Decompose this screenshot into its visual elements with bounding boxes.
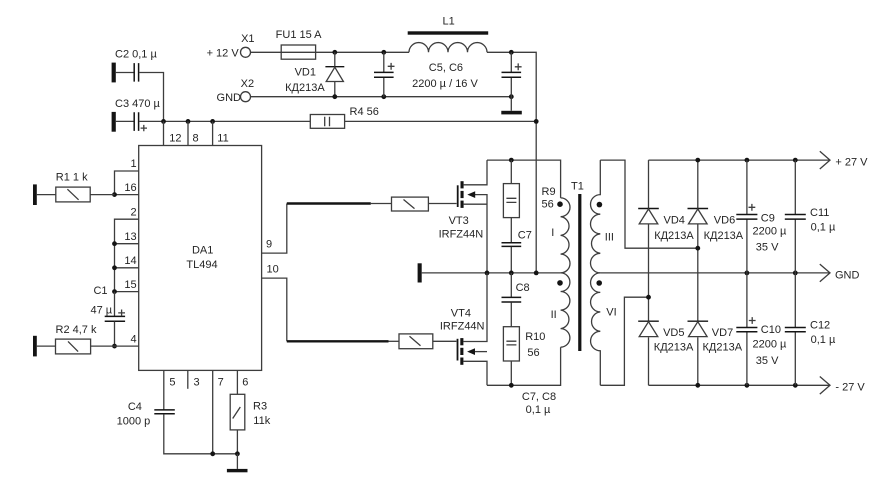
svg-text:- 27 V: - 27 V — [835, 382, 865, 394]
transformer T1 winding VI — [591, 273, 617, 385]
wire VD1 to C5 to L1 — [335, 51, 409, 53]
svg-text:IRFZ44N: IRFZ44N — [440, 321, 485, 333]
svg-text:C9: C9 — [761, 213, 775, 225]
svg-text:35 V: 35 V — [756, 355, 779, 367]
svg-text:2: 2 — [130, 206, 136, 218]
svg-text:VD4: VD4 — [664, 215, 685, 227]
diode VD5 — [638, 321, 694, 354]
svg-text:I: I — [551, 227, 554, 239]
node +27 rail C11 — [793, 158, 798, 163]
resistor R9 — [503, 160, 555, 242]
svg-text:11k: 11k — [253, 415, 270, 427]
wire pin10 to gate drive VT4 — [262, 278, 399, 341]
wire secondary centre tap GND rail — [600, 272, 830, 274]
transistor VT4 IRFZ44N — [440, 273, 487, 385]
svg-text:0,1 µ: 0,1 µ — [811, 222, 836, 234]
svg-text:0,1 µ: 0,1 µ — [526, 404, 551, 416]
terminal X2 — [217, 78, 255, 104]
node drain snubber R9 — [509, 158, 514, 163]
node pin16 R1 — [112, 192, 117, 197]
svg-text:VI: VI — [606, 307, 616, 319]
capacitor C10 — [736, 273, 787, 385]
wire L1 to C6 to +12V feed corner — [487, 52, 536, 273]
wire pin9 to gate drive VT3 — [262, 204, 392, 254]
node phase dot winding II — [557, 280, 563, 286]
svg-text:КД213А: КД213А — [704, 230, 744, 242]
op-amp controller DA1 TL494 — [139, 146, 262, 371]
node gnd rail C5 — [381, 94, 386, 99]
transformer T1 core — [571, 180, 584, 351]
svg-text:КД213А: КД213А — [654, 230, 694, 242]
svg-text:C1: C1 — [93, 285, 107, 297]
wire pin7 down — [212, 370, 214, 453]
node -27 rail C10 — [745, 383, 750, 388]
svg-text:VD7: VD7 — [712, 327, 733, 339]
wire pin3 stub — [187, 370, 189, 388]
svg-text:VD5: VD5 — [663, 327, 684, 339]
wire pins 1,16 bracket — [115, 171, 139, 195]
svg-text:2200 µ: 2200 µ — [753, 225, 788, 237]
inductor L1 — [408, 16, 489, 53]
capacitor C5 — [374, 52, 395, 96]
transformer T1 winding II — [551, 273, 570, 347]
transformer T1 winding I — [551, 198, 570, 273]
svg-text:GND: GND — [835, 269, 860, 281]
transformer T1 winding III — [591, 160, 614, 273]
diode VD7 — [688, 321, 743, 354]
ground below C6 — [501, 111, 522, 115]
svg-text:X1: X1 — [241, 33, 254, 45]
wire source center line to primary centre tap — [487, 272, 561, 274]
svg-text:L1: L1 — [442, 16, 454, 28]
svg-text:12: 12 — [169, 132, 181, 144]
node gnd rail C11 C12 — [793, 271, 798, 276]
svg-text:0,1 µ: 0,1 µ — [811, 334, 836, 346]
node R3 ground junction — [235, 451, 240, 456]
capacitor C2 — [112, 49, 158, 83]
svg-text:C7, C8: C7, C8 — [522, 391, 556, 403]
node pin13 — [112, 241, 117, 246]
wire pin4 stub — [115, 345, 139, 347]
node bus pin8 — [186, 119, 191, 124]
svg-text:2200 µ / 16 V: 2200 µ / 16 V — [412, 78, 478, 90]
wire VT4 drain line to winding II — [487, 347, 561, 385]
svg-text:VT3: VT3 — [449, 215, 469, 227]
node drain snubber R10 — [509, 383, 514, 388]
svg-text:FU1 15 A: FU1 15 A — [276, 29, 323, 41]
resistor gate VT4 — [399, 334, 456, 349]
node phase dot winding III — [597, 202, 603, 208]
svg-text:6: 6 — [242, 377, 248, 389]
node output -27V arrow — [820, 377, 866, 395]
svg-text:T1: T1 — [571, 180, 584, 192]
capacitor C3 — [112, 98, 161, 132]
svg-text:13: 13 — [124, 231, 136, 243]
svg-text:C7: C7 — [518, 230, 532, 242]
svg-text:GND: GND — [217, 92, 242, 104]
svg-text:IRFZ44N: IRFZ44N — [439, 228, 484, 240]
ground below R3 — [227, 454, 248, 473]
node -27 rail VD7 — [695, 383, 700, 388]
node AC2 VD6 VD7 junction — [695, 246, 700, 251]
node gnd rail C6 — [509, 94, 514, 99]
diode VD1 — [285, 52, 344, 96]
node AC1 VD4 VD5 junction — [646, 295, 651, 300]
terminal X1 — [207, 33, 255, 60]
svg-text:R9: R9 — [542, 186, 556, 198]
node +12V at C5 — [381, 50, 386, 55]
diode VD6 — [688, 209, 744, 242]
capacitor C4 — [117, 401, 238, 454]
wire -27V rail — [649, 384, 831, 386]
svg-text:VD6: VD6 — [714, 215, 735, 227]
node pin7 bottom wire — [210, 451, 215, 456]
capacitor C12 — [785, 273, 836, 385]
node phase dot winding VI — [596, 280, 602, 286]
node +27 rail C9 — [745, 158, 750, 163]
capacitor C8 — [502, 273, 530, 302]
svg-text:4: 4 — [130, 333, 136, 345]
svg-text:7: 7 — [218, 377, 224, 389]
wire pins 2,13,14,15 bracket — [115, 219, 139, 291]
svg-text:C2 0,1 µ: C2 0,1 µ — [115, 49, 157, 61]
svg-text:10: 10 — [267, 264, 279, 276]
svg-text:C12: C12 — [810, 320, 830, 332]
svg-text:1000 p: 1000 p — [117, 416, 151, 428]
svg-text:КД213А: КД213А — [703, 342, 743, 354]
svg-text:C8: C8 — [516, 282, 530, 294]
svg-text:2200 µ: 2200 µ — [753, 338, 788, 350]
node +12V feed centre tap — [534, 271, 539, 276]
svg-text:VD1: VD1 — [295, 67, 316, 79]
node VT3 source — [485, 271, 490, 276]
diode VD4 — [638, 209, 694, 242]
svg-text:9: 9 — [266, 239, 272, 251]
svg-text:C4: C4 — [128, 401, 142, 413]
svg-text:16: 16 — [124, 182, 136, 194]
node output +27V arrow — [820, 151, 868, 169]
wire rectifier column VD4 VD5 — [648, 160, 650, 385]
node pin15 — [112, 289, 117, 294]
node pin14 — [112, 265, 117, 270]
svg-text:35 V: 35 V — [756, 241, 779, 253]
wire VT3 drain line to winding I — [487, 160, 561, 198]
wire pin5 to C4 — [163, 370, 165, 409]
svg-text:R2 4,7 k: R2 4,7 k — [56, 324, 97, 336]
node +12V at VD1 — [332, 50, 337, 55]
svg-text:КД213А: КД213А — [285, 82, 325, 94]
resistor R10 — [503, 302, 545, 385]
node gnd rail C9 C10 — [745, 271, 750, 276]
capacitor C9 — [736, 160, 787, 273]
node output GND arrow — [820, 264, 860, 282]
svg-text:1: 1 — [130, 158, 136, 170]
svg-text:3: 3 — [194, 377, 200, 389]
svg-text:R3: R3 — [253, 400, 267, 412]
label C5 C6 values — [412, 62, 478, 90]
svg-text:+ 12 V: + 12 V — [207, 48, 240, 60]
svg-text:11: 11 — [217, 132, 228, 144]
svg-text:56: 56 — [527, 347, 539, 359]
svg-text:56: 56 — [542, 199, 554, 211]
capacitor C7 — [502, 230, 532, 273]
svg-text:R10: R10 — [525, 331, 545, 343]
capacitor C1 — [91, 285, 126, 346]
wire VCC bus to R4 and +12V line — [139, 120, 536, 122]
node pin4 junction — [112, 344, 117, 349]
wire pin6 to R3 — [236, 370, 238, 394]
node R4 junction +12V line — [534, 119, 539, 124]
wire winding III top to VD6 VD7 junction — [600, 160, 698, 248]
capacitor C11 — [785, 160, 836, 273]
svg-text:R4 56: R4 56 — [350, 106, 379, 118]
node C7 C8 junction — [509, 271, 514, 276]
fuse FU1 — [276, 29, 323, 59]
wire winding VI bottom to VD4 VD5 junction — [600, 297, 648, 385]
svg-text:DA1: DA1 — [192, 244, 213, 256]
ground bar at sources — [418, 263, 487, 282]
svg-text:III: III — [605, 231, 614, 243]
wire +27V rail — [649, 159, 831, 161]
svg-text:C11: C11 — [810, 207, 829, 219]
svg-text:14: 14 — [124, 255, 136, 267]
wire stubs bus to DA1 pins 12,8,11 — [164, 121, 213, 145]
svg-text:TL494: TL494 — [186, 259, 217, 271]
svg-text:C10: C10 — [761, 324, 781, 336]
node +12V at C6 — [509, 50, 514, 55]
resistor R3 — [230, 394, 271, 454]
svg-text:C5, C6: C5, C6 — [429, 62, 463, 74]
node bus pin11 — [210, 119, 215, 124]
svg-text:C3 470 µ: C3 470 µ — [115, 98, 161, 110]
capacitor C6 — [502, 52, 522, 111]
svg-text:R1 1 k: R1 1 k — [56, 171, 88, 183]
svg-text:КД213А: КД213А — [654, 342, 694, 354]
svg-text:X2: X2 — [241, 78, 254, 90]
svg-text:5: 5 — [169, 377, 175, 389]
svg-text:VT4: VT4 — [451, 308, 471, 320]
node -27 rail C12 — [793, 383, 798, 388]
label C7 C8 values — [522, 391, 556, 416]
resistor gate VT3 — [392, 197, 457, 211]
wire X2 ground rail — [251, 96, 512, 98]
svg-text:15: 15 — [124, 279, 136, 291]
node gnd rail VD1 — [332, 94, 337, 99]
resistor R1 — [33, 171, 115, 205]
transistor VT3 IRFZ44N — [439, 160, 487, 273]
node phase dot winding I — [557, 201, 563, 207]
node bus pin12 — [161, 119, 166, 124]
svg-text:8: 8 — [193, 132, 199, 144]
resistor R2 — [33, 324, 115, 357]
wire C2 to VCC bus — [139, 73, 163, 122]
node +27 rail VD6 — [695, 158, 700, 163]
svg-text:II: II — [551, 309, 557, 321]
svg-text:47 µ: 47 µ — [91, 304, 113, 316]
wire rectifier column VD6 VD7 — [697, 160, 699, 385]
wire X1 to FU1 to VD1 — [251, 51, 335, 53]
svg-text:+ 27 V: + 27 V — [835, 157, 868, 169]
resistor R4 — [310, 106, 379, 128]
